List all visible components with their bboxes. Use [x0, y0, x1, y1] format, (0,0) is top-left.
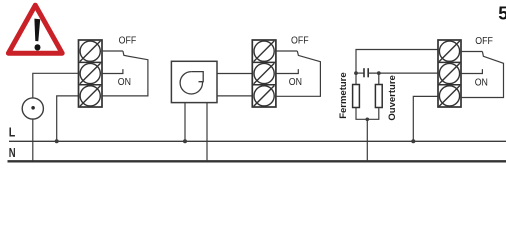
S1 blade [102, 51, 148, 96]
svg-text:N: N [9, 147, 16, 161]
junction on L at x=185 [183, 139, 187, 143]
svg-text:OFF: OFF [119, 35, 137, 47]
svg-text:OFF: OFF [475, 35, 493, 47]
winding Fermeture R1 [353, 85, 360, 108]
svg-text:5: 5 [498, 4, 506, 24]
svg-text:Fermeture: Fermeture [338, 72, 349, 118]
junction on L at x=413.3 [411, 139, 415, 143]
terminal block X2 [252, 40, 276, 107]
lamp P1 [22, 98, 43, 119]
svg-text:ON: ON [475, 77, 488, 89]
wire lamp bottom to N [32, 119, 34, 162]
switch S2 [276, 51, 321, 96]
wire terminal X1-3 to L [57, 96, 79, 141]
svg-text:Ouverture: Ouverture [387, 75, 398, 120]
svg-text:OFF: OFF [291, 35, 309, 47]
capacitor C1 [364, 68, 368, 77]
wire X3-3 to L [413, 96, 438, 141]
wire common down to N [366, 119, 368, 161]
S2 OFF contact wire [276, 50, 297, 52]
S1 OFF contact wire [102, 50, 123, 52]
S2 blade [276, 51, 321, 96]
terminal block X3 [438, 40, 461, 107]
wire lamp top to terminal X1-2 [33, 73, 79, 98]
junction node B [377, 71, 381, 75]
S3 OFF contact wire [461, 51, 482, 53]
terminal block X1 [79, 40, 103, 107]
wire M1 right lead to N [206, 103, 208, 162]
wire M1 to X2-3 [217, 95, 252, 97]
junction on L at x=56.7 [55, 139, 59, 143]
wire windings common to N [356, 108, 379, 120]
N line [8, 160, 506, 162]
wire M1 left lead to L [184, 103, 186, 142]
warning triangle W1 [8, 5, 62, 53]
winding Ouverture R2 [375, 85, 382, 108]
wire C1 right to X3-2 [368, 72, 438, 74]
switch S1 [102, 51, 148, 96]
switch S3 [461, 52, 504, 98]
S3 ON contact wire [461, 69, 482, 73]
S1 ON contact wire [102, 69, 123, 73]
wire motor node A to X3-1 [356, 50, 438, 85]
junction node A [354, 71, 358, 75]
wire M1 to X2-2 [217, 73, 252, 75]
junction windings common [366, 118, 370, 122]
wire node B down to Ouverture winding [378, 73, 380, 84]
fan symbol [180, 70, 204, 94]
S2 ON contact wire [276, 69, 298, 73]
wire capacitor row / node B to X3-2 [356, 72, 364, 74]
S3 blade [461, 52, 504, 98]
svg-text:ON: ON [118, 77, 131, 89]
svg-text:L: L [9, 125, 16, 140]
L line [9, 140, 506, 142]
fan box M1 [171, 61, 217, 102]
svg-text:ON: ON [289, 77, 302, 89]
